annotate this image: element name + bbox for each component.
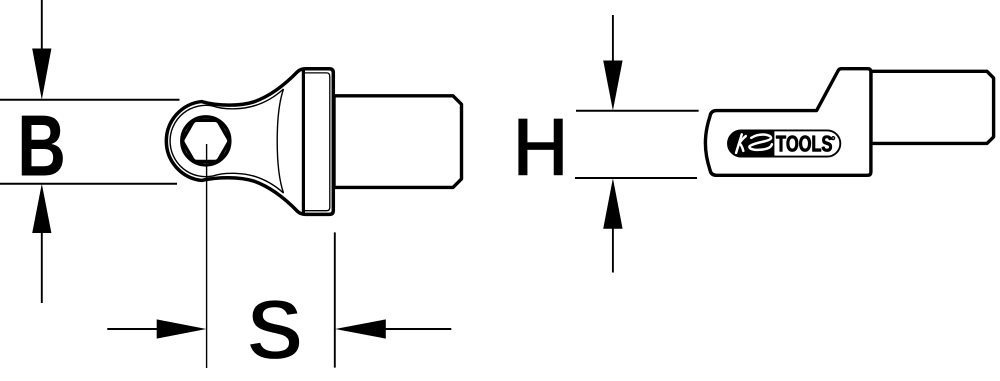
H extension line top — [576, 110, 699, 112]
KS script — [736, 134, 772, 153]
logo stadium outline — [728, 130, 840, 156]
B dim line top segment — [41, 0, 43, 50]
KS script K main stroke — [736, 134, 742, 153]
registered mark — [832, 137, 835, 140]
B extension line top — [0, 99, 180, 101]
TOOLS text — [776, 136, 832, 152]
centerline from hex center down — [206, 144, 208, 368]
hex hole outer circle — [182, 117, 230, 165]
logo black left half — [728, 129, 775, 157]
body outline — [705, 69, 871, 176]
svg-text:H: H — [512, 99, 569, 195]
ring + bell + collar silhouette — [166, 69, 333, 215]
collar left edge — [302, 70, 305, 213]
KS script S swoosh — [749, 135, 772, 150]
H dim line top segment — [612, 15, 614, 61]
H dim arrow up — [603, 178, 622, 229]
H extension line bottom — [575, 177, 697, 179]
S dim arrow left (pointing right) — [107, 328, 160, 330]
S dim arrow right (pointing left) — [335, 319, 386, 338]
H dim arrow down — [603, 61, 622, 111]
B extension line bottom — [0, 183, 177, 185]
shank rect (left view) — [334, 96, 462, 188]
B dim line bottom segment — [41, 232, 43, 303]
centerline below collar (S right) — [334, 232, 336, 367]
collar thin chamfer lines — [305, 73, 330, 211]
shank rect (side view) — [871, 71, 994, 143]
svg-text:B: B — [17, 98, 66, 195]
B dim arrow up — [32, 184, 51, 233]
svg-text:S: S — [247, 283, 304, 378]
KS script K arm and leg — [740, 136, 746, 151]
B dim arrow down — [32, 49, 51, 100]
thin inner contour (ring + bell chamfer) — [170, 89, 283, 193]
H dim line bottom segment — [612, 228, 614, 273]
hexagon socket — [183, 120, 229, 161]
